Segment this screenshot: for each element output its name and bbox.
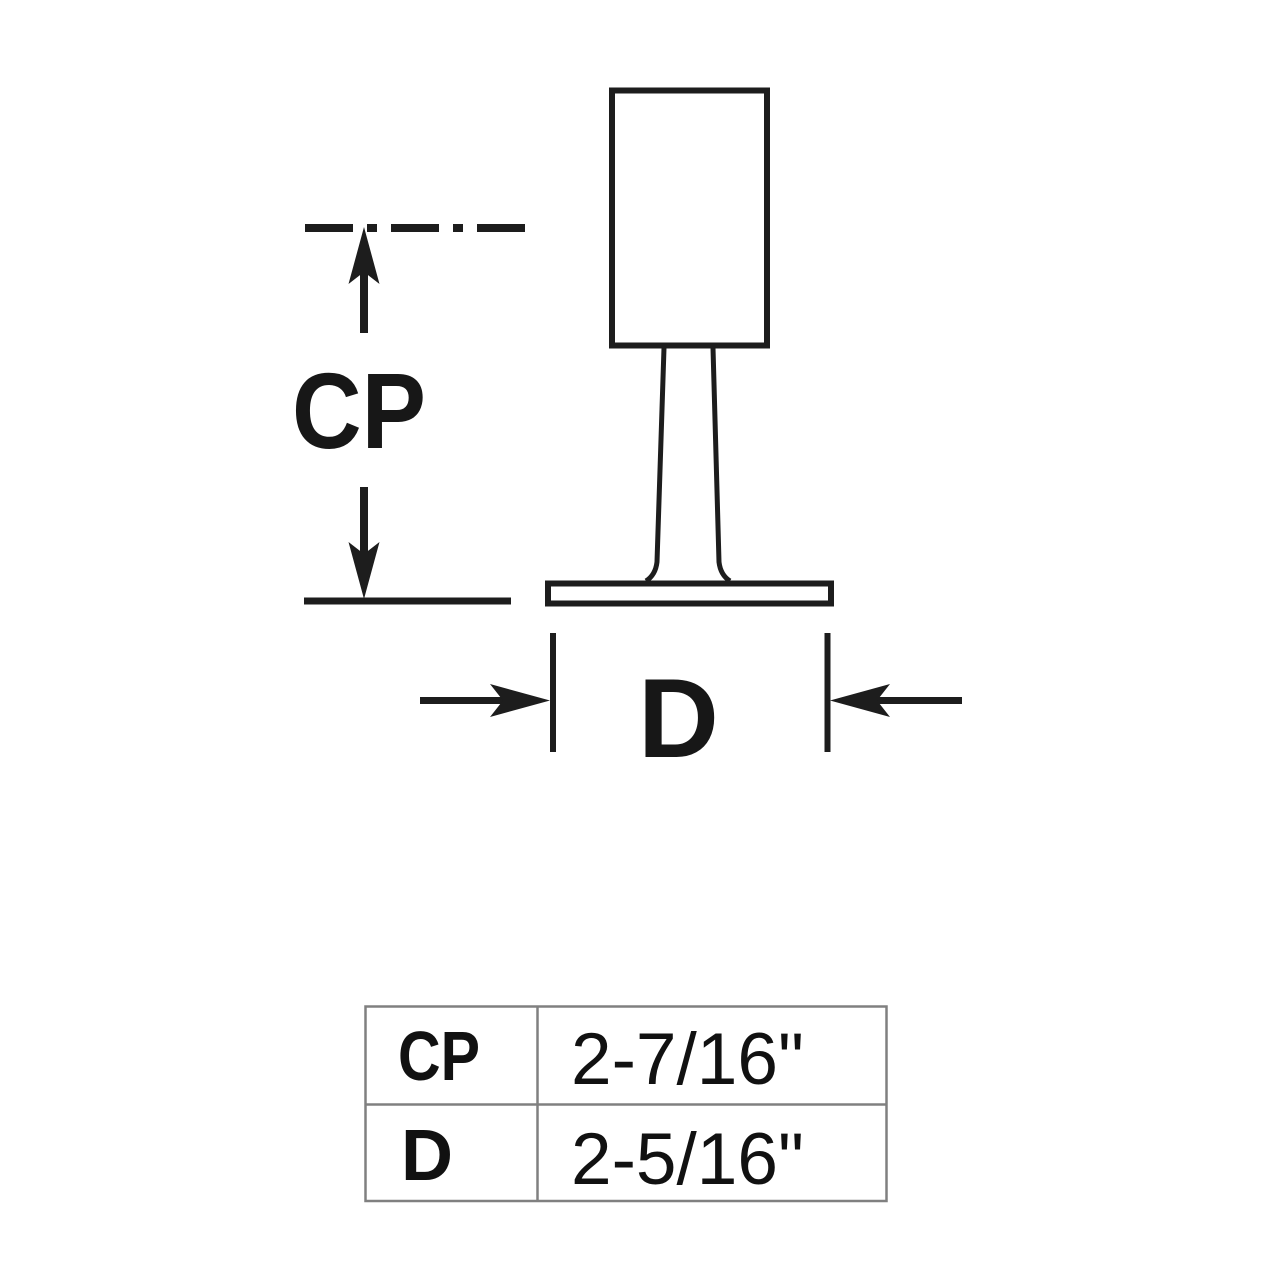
svg-text:2-7/16": 2-7/16"	[571, 1019, 804, 1100]
svg-text:D: D	[401, 1116, 453, 1196]
svg-text:2-5/16": 2-5/16"	[571, 1119, 804, 1200]
svg-text:CP: CP	[292, 350, 426, 471]
svg-text:D: D	[638, 656, 719, 781]
svg-text:CP: CP	[398, 1017, 480, 1095]
